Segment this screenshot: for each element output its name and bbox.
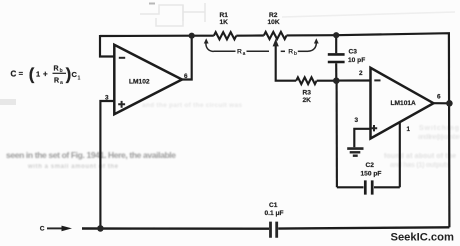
op-amp U1 inverting sign: [119, 57, 125, 59]
Ra range leader: curved arrow + line + label: [206, 43, 269, 52]
wire: top rail from feedback corner to node A: [100, 35, 192, 37]
svg-text:1: 1: [36, 70, 40, 79]
svg-text:C: C: [11, 70, 17, 79]
svg-text:R: R: [288, 49, 293, 56]
svg-text:and line (b) can be: and line (b) can be: [418, 134, 460, 141]
svg-text:(: (: [29, 65, 35, 83]
node C junction dot (R3 / C3 / pin 2): [333, 77, 340, 84]
wire: R3 to junction node C: [317, 80, 337, 82]
capacitor C3 plates: [328, 54, 345, 62]
wire: R1 to R2: [236, 34, 263, 36]
faint smudge left edge: [0, 99, 16, 105]
resistor R1: [214, 32, 237, 39]
wire: C2 loop right vertical up to pin 1: [399, 122, 401, 188]
svg-text:2: 2: [359, 70, 363, 77]
wire: LM102 output to node A: [182, 36, 192, 80]
wire: C2 loop bottom left segment: [337, 186, 364, 188]
Rb range leader: dash + label + curved arrow: [281, 43, 317, 52]
op-amp U2 inverting sign: [374, 79, 380, 81]
svg-text:+: +: [43, 70, 48, 79]
svg-text:R: R: [237, 49, 242, 56]
svg-text:C: C: [40, 226, 45, 233]
svg-text:a: a: [243, 51, 246, 57]
svg-text:C1: C1: [269, 202, 278, 209]
svg-text:1: 1: [78, 76, 81, 82]
svg-text:R: R: [54, 78, 59, 85]
op-amp U1 non-inverting sign: [118, 101, 125, 108]
svg-text:0.1 μF: 0.1 μF: [265, 210, 284, 217]
capacitor C2 plates: [365, 180, 372, 194]
node B junction dot: [333, 32, 339, 38]
wire: LM101A non-inverting input stub to ground: [354, 129, 370, 148]
svg-text:found at about of the: found at about of the: [384, 153, 456, 160]
ground symbol: [347, 149, 363, 156]
svg-text:10K: 10K: [268, 19, 280, 26]
wire: LM102 non-inverting input stub down to bottom rail: [100, 101, 114, 228]
svg-text:R3: R3: [303, 90, 312, 97]
wire: bottom rail right of C1: [278, 227, 449, 228]
svg-text:150 pF: 150 pF: [361, 170, 382, 177]
op-amp U1 LM102 triangle: [114, 45, 182, 114]
output node dot at pin 6 of LM101A: [446, 100, 453, 107]
capacitor C1 plates: [271, 222, 277, 238]
svg-text:6: 6: [437, 94, 441, 101]
wire: C2 loop left vertical from junction node C: [336, 81, 338, 188]
svg-text:=: =: [19, 69, 24, 78]
wire: R2 wiper down to R3: [276, 44, 297, 81]
svg-text:C2: C2: [366, 162, 375, 169]
svg-text:R: R: [54, 66, 59, 73]
wire: node B to top right corner and down right side to bottom rail: [336, 33, 449, 227]
svg-text:6: 6: [184, 73, 188, 80]
op-amp U2 non-inverting sign: [371, 125, 377, 131]
wire: C2 loop bottom right segment: [374, 186, 400, 188]
svg-text:seen in the set of Fig. 1941.: seen in the set of Fig. 1941. Here, the …: [6, 150, 176, 160]
wire: junction node C to LM101A inverting input pin 2: [336, 79, 370, 81]
svg-text:10 pF: 10 pF: [348, 57, 365, 64]
wire: LM102 feedback left vertical to inverting input: [100, 35, 114, 57]
faint bleed text mid left: [6, 150, 176, 170]
faint bleed-through artifacts top left: [140, 3, 205, 26]
svg-text:a: a: [60, 80, 63, 86]
resistor R3: [296, 77, 316, 84]
wire: capacitor C3 bottom stub to junction node C: [335, 63, 337, 80]
node A junction dot: [189, 33, 195, 39]
svg-text:2K: 2K: [303, 97, 312, 104]
svg-text:C3: C3: [349, 48, 358, 55]
wire: LM101A output pin 6 to right rail: [434, 102, 450, 104]
svg-text:3: 3: [355, 117, 359, 124]
svg-text:with a small amount of the: with a small amount of the: [27, 164, 119, 170]
faint bleed line top right: [282, 12, 455, 17]
svg-text:and the part of the circuit wa: and the part of the circuit was: [142, 102, 242, 109]
faint bleed marks right side: [384, 125, 460, 169]
svg-text:LM101A: LM101A: [391, 100, 417, 107]
wire: node A to R1: [192, 35, 214, 37]
svg-text:Switching: Switching: [419, 125, 459, 132]
input node junction dot on bottom rail: [97, 225, 104, 232]
svg-text:3: 3: [105, 94, 109, 101]
svg-text:1: 1: [407, 126, 411, 133]
resistor R2: [264, 32, 287, 39]
R2 wiper arrowhead: [273, 39, 279, 47]
svg-text:1K: 1K: [220, 19, 229, 26]
wire: R2 to node B: [287, 34, 337, 36]
svg-text:SeekIC.com: SeekIC.com: [391, 232, 454, 244]
svg-text:b: b: [294, 51, 297, 57]
formula C = (1 + Rb/Ra)C1: [11, 65, 81, 86]
svg-text:LM102: LM102: [129, 79, 150, 86]
wire: capacitor C3 top stub from node B: [335, 35, 337, 53]
svg-text:): ): [66, 65, 72, 83]
op-amp U2 LM101A triangle: [371, 68, 434, 139]
wire: bottom rail left of C1: [82, 227, 269, 230]
